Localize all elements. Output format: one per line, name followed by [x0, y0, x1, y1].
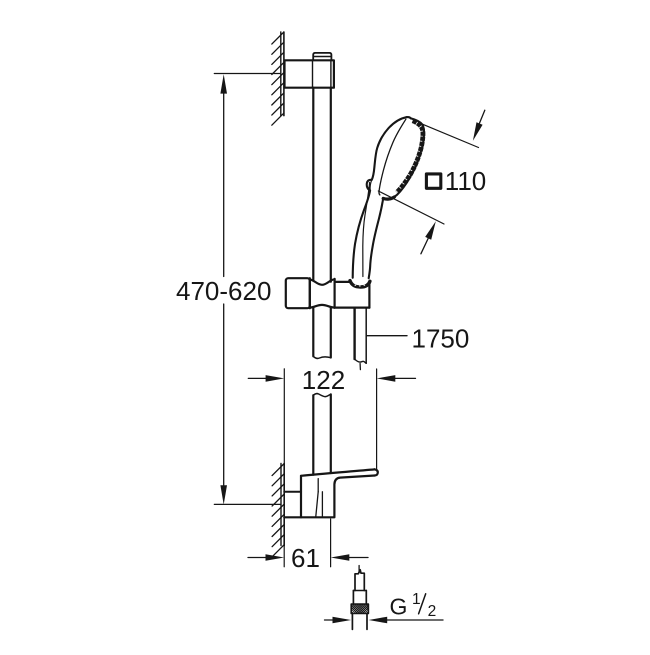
hand shower: inner front rim contour — [379, 119, 406, 195]
rail lower segment (lower break to bottom bracket) — [313, 394, 331, 474]
svg-text:61: 61 — [291, 543, 320, 573]
hose break squiggle with tail — [355, 359, 367, 363]
wall bottom hatching — [272, 464, 284, 557]
G1/2 fitting: break tail — [358, 566, 360, 573]
hand shower: top tip arc — [407, 117, 411, 118]
hand shower: button base tick — [370, 180, 372, 191]
dim 61: right extension line — [330, 519, 332, 567]
hand shower: left silhouette from tip down to holder — [353, 117, 407, 278]
dim G1/2: line with arrows — [325, 619, 334, 621]
svg-text:2: 2 — [428, 603, 437, 620]
hand shower: handle inner shading line — [363, 183, 370, 277]
dim 122: dimension line right part with arrow — [395, 377, 416, 379]
dim 110: upper extension line — [421, 124, 478, 148]
G1/2 fitting: knurled nut (crosshatched) — [340, 602, 380, 616]
dim 110: square symbol — [426, 174, 440, 188]
dim 122: left extension line — [283, 369, 285, 464]
rail middle segment (slider to upper break) — [313, 308, 331, 358]
dim 110: lower extension line — [378, 191, 444, 224]
wall bottom: double line — [281, 464, 284, 546]
svg-text:1750: 1750 — [412, 324, 470, 354]
hand shower: bottom end cap — [383, 197, 394, 199]
dim 122: dimension line left part with arrow — [248, 377, 266, 379]
dim 110: lower arrow (points up-right onto extension line) — [421, 238, 428, 254]
slider waist section — [310, 278, 335, 308]
slider knob (left) — [286, 278, 310, 308]
dim 122: right extension line — [376, 369, 378, 471]
dim 61: left extension line (below wall) — [283, 546, 285, 567]
G1/2 fitting: upper tube with break notch — [353, 570, 366, 604]
top bracket on wall — [285, 60, 334, 87]
dim 110: upper arrow (points down-left onto extension line) — [480, 110, 485, 123]
wall top: double line — [281, 32, 284, 116]
rail upper break squiggle — [313, 356, 331, 358]
wall top hatching — [272, 32, 284, 125]
bottom bracket: body — [284, 476, 334, 518]
svg-text:122: 122 — [302, 365, 345, 395]
svg-text:470-620: 470-620 — [176, 276, 271, 306]
svg-text:1: 1 — [412, 591, 421, 608]
rail upper segment (bracket to slider) — [313, 88, 331, 282]
rail lower break squiggle — [313, 394, 330, 397]
label G 1/2 — [390, 591, 437, 620]
hand shower: spray face strip (dark scalloped band) — [397, 121, 423, 193]
holder knurled cone rim (dark arc with dots) — [350, 281, 370, 287]
dim 470-620: vertical dimension line — [223, 90, 225, 489]
hand shower: handle right edge — [369, 198, 384, 278]
svg-text:G: G — [390, 594, 408, 620]
dim 470-620: bottom extension line — [214, 503, 281, 505]
rail end cap — [313, 53, 331, 60]
dim 470-620: bottom arrow — [220, 485, 227, 504]
bottom bracket: shelf arm — [301, 469, 378, 516]
slider holder body (right) — [335, 279, 370, 308]
dim 470-620: top extension line — [214, 73, 280, 75]
svg-text:110: 110 — [445, 166, 486, 196]
dim 61: dimension line with arrows — [248, 557, 266, 559]
hand shower: face outer edge — [394, 118, 424, 196]
G1/2 fitting: lower tube — [352, 614, 367, 630]
leader line for 1750 — [367, 335, 407, 337]
bottom bracket: inner detail lines — [316, 479, 323, 517]
dim 470-620: top arrow — [220, 74, 227, 93]
hose upper segment from holder to break — [355, 308, 367, 364]
